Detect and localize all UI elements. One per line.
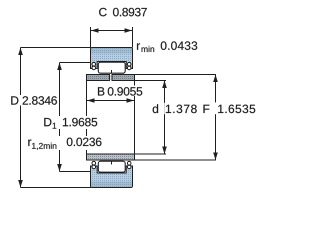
inner ring upper-left segment (gray hatched, width B) [87,75,110,81]
roller/cage upper (white rounded rect) [98,62,125,73]
D dimension line [20,48,22,188]
label C 0.8937 [99,8,107,17]
D1 dimension line [59,63,61,172]
label r min 0.0433 [137,43,140,49]
C extension line left [90,27,92,48]
seal ball upper-right a [127,62,131,66]
D1 arrow bottom [57,164,62,172]
seal ball upper-right b [127,66,131,70]
B extension line right [134,81,136,155]
d dimension line [164,81,166,155]
d extension line top (bore upper) [135,80,167,82]
label D 2.8346 [9,95,58,106]
seal ball upper-left a [92,62,96,66]
outer ring lower half (blue hatched) [91,166,133,188]
label d 1.378 [163,103,165,114]
label B 0.9055 [96,86,144,97]
D arrow bottom [18,180,23,188]
D1 arrow top [57,63,62,71]
d extension line bottom (bore lower) [135,153,167,155]
seal ball lower-right a [127,161,131,165]
seal ball lower-left a [92,161,96,165]
F arrow bottom [213,153,218,161]
roller center tick lower [111,161,113,165]
inner ring upper-right segment [112,75,135,81]
seal ball lower-right b [127,165,131,169]
F arrow top [213,75,218,83]
seal ball lower-left b [92,165,96,169]
C arrow left [91,28,99,33]
lower ring darker bottom band [91,182,132,188]
d arrow top [162,81,167,89]
D1 extension line top [60,62,91,64]
inner ring lower (gray hatched) [87,154,135,160]
B arrow left [87,98,95,103]
C extension line right [132,27,134,48]
B dimension line [87,100,134,102]
label r 1,2min 0.0236 [27,136,104,150]
B extension line left [86,81,88,155]
roller center tick upper [111,70,113,74]
seal ball upper-left b [92,66,96,70]
upper inner ring dark tint [87,75,134,80]
B arrow right [127,98,135,103]
D extension line bottom [21,187,92,189]
F extension line top (raceway upper) [135,74,217,76]
label F 1.6535 [214,102,216,114]
C dimension line [91,30,132,32]
roller/cage lower (white rounded rect) [98,161,125,172]
d arrow bottom [162,147,167,155]
D arrow top [18,48,23,56]
label D1 1.9685 [42,116,100,129]
upper ring darker top band [91,48,132,54]
F dimension line [215,75,217,161]
outer ring upper half (blue hatched, width C) [91,48,133,69]
C arrow right [125,28,133,33]
D1 extension line bottom [60,171,91,173]
D extension line top [21,47,91,49]
F extension line bottom (raceway lower) [135,159,217,161]
